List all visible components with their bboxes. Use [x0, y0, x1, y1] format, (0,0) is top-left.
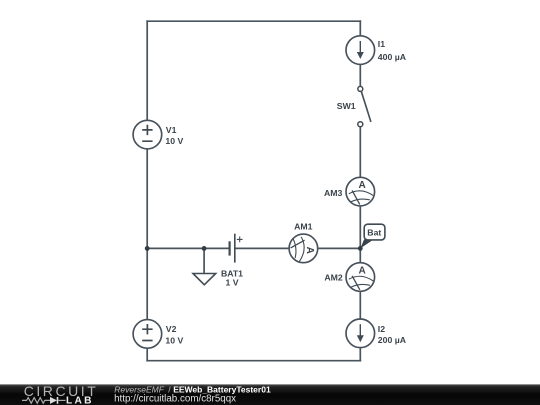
svg-text:http://circuitlab.com/c8r5qqx: http://circuitlab.com/c8r5qqx	[114, 393, 236, 404]
ground	[193, 248, 216, 284]
svg-text:AM2: AM2	[324, 272, 343, 282]
junction node Bat at right rail / middle wire	[358, 246, 363, 251]
node Bat flag	[360, 224, 385, 248]
svg-text:I1: I1	[378, 39, 385, 49]
CircuitLab logo	[22, 383, 98, 405]
ammeter AM2	[324, 263, 374, 292]
voltage source V2	[133, 320, 183, 349]
wire middle seg1	[147, 247, 229, 249]
svg-text:SW1: SW1	[337, 101, 356, 111]
svg-text:400 µA: 400 µA	[378, 52, 407, 62]
wire right rail seg2	[359, 64, 361, 86]
svg-text:A: A	[304, 247, 315, 254]
svg-text:AM3: AM3	[324, 188, 343, 198]
wire middle seg2	[235, 247, 289, 249]
wire bottom rail	[147, 360, 360, 362]
svg-text:I2: I2	[378, 324, 385, 334]
svg-text:Bat: Bat	[367, 228, 381, 238]
svg-text:LAB: LAB	[66, 396, 94, 405]
svg-text:A: A	[358, 180, 365, 191]
svg-text:A: A	[358, 266, 365, 277]
wire right rail seg6	[359, 348, 361, 361]
wire right rail seg5	[359, 291, 361, 319]
ammeter AM3	[324, 177, 375, 206]
voltage source V1	[133, 120, 183, 149]
attribution text	[114, 385, 271, 405]
current source I2	[346, 319, 407, 348]
svg-text:10 V: 10 V	[165, 335, 183, 345]
svg-text:200 µA: 200 µA	[378, 335, 407, 345]
wire left rail middle	[146, 149, 148, 320]
battery BAT1	[221, 234, 243, 288]
wire top rail	[147, 20, 360, 22]
current source I1	[346, 36, 407, 65]
watermark bar	[0, 384, 540, 405]
junction node at left rail / middle wire	[145, 246, 150, 251]
wire left rail upper	[146, 21, 148, 120]
svg-text:V1: V1	[166, 125, 177, 135]
wire right rail seg1	[359, 21, 361, 36]
wire right rail seg3	[359, 127, 361, 177]
svg-text:V2: V2	[166, 324, 177, 334]
wire left rail lower	[146, 348, 148, 361]
wire middle seg3	[318, 247, 361, 249]
svg-text:AM1: AM1	[294, 221, 313, 231]
svg-text:10 V: 10 V	[165, 136, 183, 146]
wire right rail seg4	[359, 206, 361, 263]
junction node at ground tap	[202, 246, 207, 251]
switch SW1	[337, 86, 371, 126]
ammeter AM1	[289, 221, 318, 262]
svg-text:1 V: 1 V	[225, 277, 238, 287]
